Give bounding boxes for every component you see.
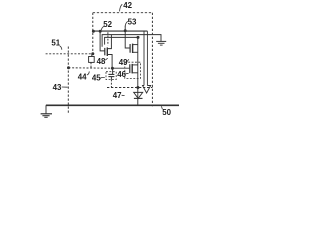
node dot on 43 [67, 66, 70, 69]
svg-text:49: 49 [119, 58, 128, 67]
leader 45 [100, 77, 105, 78]
transistor Q49 [130, 44, 138, 53]
node rail/dashed [136, 86, 139, 89]
ground (bottom left) [41, 105, 52, 117]
svg-text:52: 52 [103, 20, 112, 29]
leader 51 [60, 46, 62, 50]
wire A (52/53 net) [93, 30, 147, 32]
rail (drain/cathode line) [137, 37, 139, 104]
leader 47 [122, 94, 125, 96]
node A2 [99, 30, 102, 33]
capacitor 45 [106, 68, 116, 87]
leader 52 [101, 26, 104, 30]
leader 46 [125, 72, 128, 75]
resistor 44 [89, 54, 95, 68]
transistor Q46 [112, 62, 140, 78]
node A3 [124, 29, 127, 32]
box 42 top edge [93, 12, 153, 14]
svg-text:48: 48 [97, 57, 106, 66]
wire: 53 stem to gate of 49 [125, 26, 130, 48]
leader 48 [105, 58, 108, 60]
node D4 [111, 67, 114, 70]
node dot 51/box edge [91, 52, 94, 55]
leader 53 [125, 21, 128, 26]
wire 51 (dashed horizontal) [46, 53, 93, 55]
wire bus 50 [46, 104, 179, 106]
wire B (to top-right ground) [102, 35, 161, 47]
dashed stub [107, 32, 109, 45]
transistor Q48 [105, 35, 112, 69]
svg-text:44: 44 [78, 73, 87, 82]
svg-text:51: 51 [51, 39, 60, 48]
wire C [105, 37, 138, 44]
node A1 [92, 30, 95, 33]
dashed net y=67.8 [69, 67, 113, 69]
box 42 left edge [92, 13, 94, 57]
wire: A2 stem to gate of 48 [100, 31, 105, 51]
box 42 right edge [151, 13, 153, 107]
leader 50 [161, 106, 162, 109]
ground (top right) [156, 41, 166, 45]
leader 49 [127, 59, 129, 62]
svg-text:43: 43 [53, 83, 62, 92]
dashed net y=87.5 (bottom) [107, 87, 152, 89]
labels [51, 1, 171, 117]
svg-text:46: 46 [117, 70, 126, 79]
leader 42 [120, 4, 123, 11]
svg-text:45: 45 [92, 74, 101, 83]
leader 44 [87, 71, 89, 75]
leader 43 [62, 86, 68, 88]
current arrow (hollow) [143, 31, 151, 93]
node C-rail [137, 36, 140, 39]
svg-text:53: 53 [128, 17, 137, 26]
svg-text:42: 42 [123, 1, 132, 10]
svg-text:50: 50 [162, 108, 171, 117]
diode 47 [134, 92, 143, 98]
svg-text:47: 47 [113, 91, 122, 100]
wire 43 (dashed vertical line) [67, 47, 69, 115]
